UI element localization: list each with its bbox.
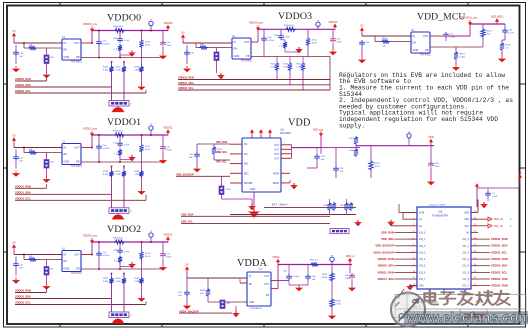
svg-text:VDDO1_pre: VDDO1_pre bbox=[83, 126, 98, 130]
svg-text:SCL_IN: SCL_IN bbox=[494, 225, 503, 228]
svg-text:OUT: OUT bbox=[74, 41, 80, 45]
svg-text:0.22uF: 0.22uF bbox=[103, 43, 110, 45]
svg-text:PCA9539CPW: PCA9539CPW bbox=[432, 215, 449, 218]
svg-text:23: 23 bbox=[474, 217, 476, 219]
wire bbox=[120, 159, 132, 161]
wire bbox=[207, 297, 209, 302]
wire VDDA rail bbox=[278, 264, 352, 266]
svg-text:SDA: SDA bbox=[464, 218, 469, 221]
svg-text:0.22uF: 0.22uF bbox=[268, 40, 275, 42]
ground VDDO3 input bbox=[183, 66, 191, 72]
wire OUT stub bbox=[81, 147, 92, 149]
svg-text:VDDO3_RUN: VDDO3_RUN bbox=[491, 257, 508, 261]
wire bbox=[355, 145, 357, 148]
svg-text:4.7uF: 4.7uF bbox=[124, 40, 130, 42]
svg-text:PB: PB bbox=[76, 160, 80, 164]
svg-text:19: 19 bbox=[474, 244, 476, 246]
wire out lower bbox=[278, 280, 289, 282]
svg-text:VDDO3_pre: VDDO3_pre bbox=[249, 21, 264, 25]
wire bus VDDO0_RUN bbox=[15, 80, 47, 82]
capacitor C3in 1uF bbox=[184, 50, 190, 56]
wire drop bbox=[335, 148, 337, 166]
svg-text:GND: GND bbox=[64, 267, 70, 271]
capacitor C30 1uF bbox=[314, 154, 320, 160]
ground jumper VDDO2 bbox=[42, 284, 50, 290]
wire bbox=[24, 47, 28, 49]
wire VDD right rail bbox=[356, 145, 434, 147]
wire bus VDDO3_SCL bbox=[178, 89, 330, 91]
resistor R152 6.04K bbox=[122, 277, 126, 285]
ground flag VDDA IC bbox=[232, 311, 240, 317]
wire bbox=[332, 29, 334, 36]
wire join bbox=[277, 265, 279, 289]
wire bbox=[263, 42, 265, 56]
resistor R131 6.04K bbox=[288, 62, 292, 72]
svg-text:1uF: 1uF bbox=[19, 56, 23, 58]
wire VDDO3_SCL right bbox=[478, 271, 490, 273]
svg-text:R115: R115 bbox=[218, 149, 224, 151]
wire bbox=[331, 282, 333, 298]
svg-text:5V: 5V bbox=[360, 23, 363, 27]
wire divider mid bbox=[141, 260, 143, 277]
svg-text:VDD_SDA: VDD_SDA bbox=[216, 151, 227, 154]
svg-text:13: 13 bbox=[474, 284, 476, 286]
svg-text:R150: R150 bbox=[116, 67, 122, 69]
wire bbox=[276, 72, 278, 80]
wire bbox=[186, 272, 188, 278]
test point TP2 bbox=[149, 231, 153, 240]
wire bbox=[98, 46, 100, 58]
svg-text:R122: R122 bbox=[340, 205, 346, 207]
resistor R121a bbox=[327, 202, 331, 211]
svg-text:VDDO2_SCL: VDDO2_SCL bbox=[491, 250, 507, 254]
ground VDD out cap bbox=[427, 179, 435, 185]
capacitor C3c 10uF bbox=[330, 37, 336, 44]
wire VSS bbox=[410, 284, 417, 286]
svg-text:GND: GND bbox=[64, 55, 70, 59]
svg-text:R162: R162 bbox=[135, 278, 141, 280]
ground VDDO1 input cap bbox=[12, 171, 20, 177]
wire VDDO3_RUN right bbox=[478, 285, 490, 287]
wire bbox=[120, 54, 132, 56]
wire PB/feedback net bbox=[81, 57, 164, 59]
wire bbox=[98, 242, 100, 251]
wire bbox=[307, 280, 309, 285]
svg-text:TPS78601: TPS78601 bbox=[71, 272, 83, 275]
ground flag C1 bbox=[480, 202, 488, 208]
wire bbox=[455, 47, 457, 51]
svg-text:5: 5 bbox=[413, 237, 414, 239]
wire bbox=[320, 148, 322, 154]
wire bbox=[162, 152, 164, 158]
svg-text:2.05k: 2.05k bbox=[460, 56, 466, 58]
power flag VDDO3_pre bbox=[249, 21, 264, 31]
jumper JP16 bbox=[219, 186, 224, 195]
wire bus SCL rise bbox=[145, 302, 147, 305]
svg-text:OUT: OUT bbox=[274, 158, 279, 160]
capacitor C8b 1uF bbox=[305, 274, 311, 280]
wire bbox=[111, 274, 113, 278]
resistor R132 2.05k bbox=[330, 298, 334, 308]
svg-text:EN: EN bbox=[234, 47, 238, 51]
wire bbox=[162, 135, 164, 145]
svg-text:4.42K: 4.42K bbox=[103, 281, 109, 283]
wire bbox=[15, 150, 17, 155]
svg-text:31.6k: 31.6k bbox=[312, 40, 318, 42]
svg-text:10uF: 10uF bbox=[167, 45, 173, 47]
svg-text:40.2k: 40.2k bbox=[375, 166, 381, 168]
svg-text:2: 2 bbox=[413, 217, 414, 219]
power flag VDDO2 output bbox=[164, 233, 173, 243]
wire bus SCL rise bbox=[145, 90, 147, 93]
svg-text:4.7uF: 4.7uF bbox=[124, 252, 130, 254]
svg-text:VDDO2_pre: VDDO2_pre bbox=[83, 233, 98, 237]
capacitor C2b 4.7uF bbox=[117, 248, 123, 254]
wire bbox=[332, 44, 334, 50]
wire bbox=[216, 48, 218, 53]
wire bbox=[150, 29, 152, 31]
wire bbox=[504, 24, 506, 28]
wire PB feedback bbox=[430, 46, 483, 48]
wire bbox=[316, 148, 318, 154]
wire bbox=[443, 35, 446, 37]
wire to jumper bbox=[46, 260, 48, 267]
resistor R131 49.9k bbox=[330, 272, 334, 282]
svg-text:EPAD: EPAD bbox=[273, 182, 279, 185]
test point TP9 bbox=[407, 132, 411, 141]
svg-text:VDDO3_SDA: VDDO3_SDA bbox=[491, 264, 507, 268]
svg-text:0.22uF: 0.22uF bbox=[103, 148, 110, 150]
wire VDD IC left pin bbox=[230, 153, 242, 155]
svg-text:supply.: supply. bbox=[339, 122, 365, 129]
svg-text:1uF: 1uF bbox=[19, 161, 23, 163]
svg-text:18: 18 bbox=[474, 251, 476, 253]
wire drop to header bbox=[123, 73, 125, 101]
wire bbox=[141, 285, 143, 296]
ground C8c bbox=[348, 285, 356, 291]
ground dome VDDO1 header bbox=[112, 214, 124, 219]
wire U15 left pin stub bbox=[410, 225, 417, 227]
wire VDDO1 output rail bbox=[92, 134, 168, 136]
wire bbox=[15, 45, 17, 50]
wire bbox=[285, 51, 299, 53]
svg-text:41.2k: 41.2k bbox=[145, 253, 151, 255]
power flag VDD_MCU output bbox=[491, 15, 504, 25]
svg-text:JP16: JP16 bbox=[226, 189, 232, 191]
wire VDDO2_RUN right bbox=[478, 278, 490, 280]
resistor R100b 1.0 bbox=[118, 44, 122, 52]
wire bbox=[208, 47, 232, 49]
wire bbox=[302, 72, 304, 91]
wire OUT rise bbox=[91, 242, 93, 255]
wire VDDO0_SDA to U15 bbox=[395, 265, 411, 267]
wire to VDD IC pin2 bbox=[214, 159, 230, 161]
svg-text:20: 20 bbox=[474, 237, 476, 239]
wire VDDO1 IN net bbox=[14, 147, 62, 149]
svg-text:R152: R152 bbox=[116, 278, 122, 280]
svg-text:FB1 1.0: FB1 1.0 bbox=[310, 260, 318, 262]
svg-text:IO1_3: IO1_3 bbox=[463, 259, 470, 261]
wire EN bbox=[208, 301, 247, 303]
wire VDDO2_RUN right bbox=[478, 238, 490, 240]
svg-text:0.1uF: 0.1uF bbox=[450, 36, 456, 38]
wire U15 right pin stub bbox=[471, 278, 478, 280]
ground jumper VDDO1 bbox=[42, 177, 50, 183]
wire bbox=[150, 240, 152, 242]
voltage regulator U11 TPS78601 bbox=[62, 140, 83, 168]
capacitor C7b 4.7uF bbox=[502, 28, 508, 34]
wire bbox=[119, 242, 121, 248]
svg-text:VDD_pre: VDD_pre bbox=[313, 128, 324, 132]
wire PB/feedback net bbox=[81, 268, 164, 270]
svg-text:OUT: OUT bbox=[264, 276, 269, 278]
svg-text:OUT: OUT bbox=[274, 145, 279, 147]
wire bbox=[15, 257, 17, 262]
wire bbox=[455, 60, 457, 65]
wire bbox=[98, 150, 100, 162]
wire U15 right pin stub bbox=[471, 251, 478, 253]
capacitor C1a 0.22uF bbox=[96, 144, 102, 150]
wire bbox=[281, 39, 285, 41]
wire bbox=[162, 47, 164, 53]
svg-text:IO1_6: IO1_6 bbox=[463, 279, 470, 281]
power flag VDDO3 output bbox=[329, 20, 338, 30]
svg-text:0.22uF: 0.22uF bbox=[103, 255, 110, 257]
wire EN to IC bbox=[37, 47, 62, 49]
svg-text:VDD_SCL: VDD_SCL bbox=[216, 162, 227, 164]
wire drop to header bbox=[123, 285, 125, 313]
wire EN to IC bbox=[37, 152, 62, 154]
svg-text:VDDO1: VDDO1 bbox=[107, 117, 141, 128]
resistor R100 0.1 shunt bbox=[114, 28, 125, 32]
svg-text:R120: R120 bbox=[375, 163, 381, 165]
svg-text:www.elecfans.com: www.elecfans.com bbox=[406, 310, 528, 325]
wire bbox=[186, 56, 188, 64]
wire drop to header bbox=[123, 178, 125, 208]
svg-text:U15: U15 bbox=[438, 211, 443, 214]
wire out join bbox=[291, 145, 293, 159]
resistor R12e 10k bbox=[28, 257, 37, 261]
wire bus VDD_SCL bbox=[181, 222, 330, 224]
wire VDDO2 IN net bbox=[14, 254, 62, 256]
wire U15 left pin stub bbox=[410, 278, 417, 280]
svg-text:14: 14 bbox=[474, 277, 476, 279]
wire hidden bbox=[355, 136, 357, 146]
ground VDDO0 input cap bbox=[12, 66, 20, 72]
svg-text:R151: R151 bbox=[116, 171, 122, 173]
wire bbox=[213, 144, 215, 146]
svg-text:4: 4 bbox=[413, 231, 414, 233]
resistor R141 4.42K bbox=[109, 170, 113, 178]
wire bbox=[375, 41, 381, 43]
wire bbox=[288, 280, 290, 285]
wire bbox=[15, 268, 17, 276]
ground VDDA divider bbox=[328, 313, 336, 319]
wire bbox=[374, 36, 376, 42]
resistor R122 5.86k bbox=[139, 277, 143, 285]
svg-text:VDDA: VDDA bbox=[237, 258, 268, 269]
svg-text:VDDO0: VDDO0 bbox=[107, 12, 141, 23]
wire U15 VDD to 5V net bbox=[477, 200, 478, 213]
svg-text:IN: IN bbox=[64, 41, 67, 45]
capacitor C8c 10uF bbox=[349, 273, 355, 280]
wire U15 left pin stub bbox=[410, 271, 417, 273]
resistor R103 50.1 shunt bbox=[285, 27, 296, 31]
svg-text:R119: R119 bbox=[460, 54, 466, 56]
wire OUT rise bbox=[91, 135, 93, 148]
svg-text:17: 17 bbox=[474, 257, 476, 259]
wire VDDO2_SDA right bbox=[478, 245, 490, 247]
resistor R122b bbox=[349, 202, 353, 211]
svg-text:IO1_4: IO1_4 bbox=[463, 266, 470, 268]
wire bus SCL rise bbox=[145, 195, 147, 201]
capacitor C0c 10uF bbox=[160, 40, 166, 47]
capacitor CAin 1uF bbox=[184, 290, 190, 296]
wire VDDO3 rail bbox=[258, 28, 335, 30]
svg-text:15: 15 bbox=[474, 271, 476, 273]
wire bbox=[501, 40, 503, 42]
capacitor C20 1uF bbox=[194, 152, 200, 158]
dc-dc converter U1 MIC23099 bbox=[242, 130, 291, 193]
ground VDDO2 input cap bbox=[12, 278, 20, 284]
ground output cap VDDO2 bbox=[159, 265, 167, 271]
wire bbox=[120, 266, 132, 268]
capacitor C1 0.1uF bbox=[485, 191, 491, 197]
resistor R130 10k bbox=[206, 288, 210, 297]
voltage regulator U17 TPS78601 bbox=[411, 29, 432, 57]
jumper JP2a bbox=[44, 267, 49, 276]
wire U15 left pin stub bbox=[410, 251, 417, 253]
wire bbox=[298, 47, 300, 52]
resistor R11e 10k bbox=[28, 150, 37, 154]
resistor R114 10k bbox=[381, 39, 390, 43]
wire rail ext bbox=[321, 147, 336, 149]
svg-text:VDD_RUN: VDD_RUN bbox=[216, 142, 227, 144]
wire bbox=[196, 144, 198, 152]
wire bbox=[316, 160, 318, 168]
wire bbox=[195, 43, 197, 48]
wire bbox=[167, 134, 169, 136]
wire bbox=[141, 178, 143, 189]
wire VDDO3 PB net bbox=[251, 56, 330, 58]
wire bbox=[207, 278, 209, 288]
wire bbox=[119, 157, 121, 163]
voltage regulator U13 TPS78601 bbox=[232, 35, 253, 63]
svg-text:VDDO3_RUN: VDDO3_RUN bbox=[491, 284, 508, 288]
svg-text:41.2k: 41.2k bbox=[145, 146, 151, 148]
ground flag VDDO0 mid bbox=[128, 51, 136, 57]
capacitor C33 10uF bbox=[428, 161, 434, 168]
wire bbox=[123, 62, 125, 66]
wire jumper to gnd bbox=[46, 64, 48, 73]
svg-text:5.86K: 5.86K bbox=[135, 174, 141, 176]
svg-text:VDD_MCU_pre: VDD_MCU_pre bbox=[459, 16, 478, 20]
header J2 4-pin bbox=[109, 312, 129, 318]
svg-text:1uF: 1uF bbox=[189, 157, 193, 159]
resistor R112 41.2k bbox=[139, 251, 143, 261]
resistor R122a bbox=[344, 202, 348, 211]
power flag 5V (VDDO3 input) bbox=[181, 30, 185, 40]
offpage connector SCL_IN bbox=[478, 224, 512, 228]
capacitor C0a 0.22uF bbox=[96, 40, 102, 46]
wire hidden bbox=[395, 260, 411, 262]
power flag 5V (VDDA input) bbox=[185, 262, 189, 272]
svg-text:R118: R118 bbox=[349, 150, 355, 152]
wire bbox=[408, 141, 410, 146]
wire EN stub bbox=[240, 282, 247, 284]
svg-text:R101 50.1: R101 50.1 bbox=[113, 131, 124, 133]
svg-text:R161: R161 bbox=[135, 171, 141, 173]
svg-text:1uF: 1uF bbox=[366, 42, 370, 44]
svg-text:VDD_SDA: VDD_SDA bbox=[381, 237, 394, 241]
svg-text:OUT: OUT bbox=[74, 146, 80, 150]
svg-text:R102 50.1: R102 50.1 bbox=[113, 238, 124, 240]
svg-text:IO1_7: IO1_7 bbox=[463, 286, 470, 288]
wire bbox=[119, 264, 121, 270]
wire bbox=[123, 274, 125, 278]
wire bbox=[221, 195, 223, 200]
svg-text:5V: 5V bbox=[185, 262, 188, 266]
svg-text:VDD_MCU: VDD_MCU bbox=[491, 15, 504, 19]
ground flag VDDO3 jumper bbox=[217, 73, 225, 79]
wire bbox=[501, 51, 503, 56]
svg-text:4.7uF: 4.7uF bbox=[124, 145, 130, 147]
wire bbox=[98, 135, 100, 144]
wire 5V feed VDDO2 bbox=[13, 250, 15, 255]
wire bus VDDO3_SDA bbox=[178, 84, 330, 86]
wire bbox=[111, 167, 113, 171]
svg-text:41.2k: 41.2k bbox=[145, 42, 151, 44]
svg-text:VDDA: VDDA bbox=[272, 255, 279, 259]
svg-text:IO1_2: IO1_2 bbox=[463, 252, 470, 254]
power flag 5V (VDDO0 input) bbox=[12, 29, 16, 39]
wire bottom bend bbox=[398, 289, 404, 299]
wire bbox=[445, 38, 447, 41]
wire bbox=[307, 29, 309, 37]
test point TP3 bbox=[316, 20, 320, 29]
wire U15 right pin stub bbox=[471, 285, 478, 287]
svg-text:R130: R130 bbox=[271, 64, 277, 66]
wire bbox=[119, 135, 121, 141]
resistor R3e 10k bbox=[199, 45, 208, 49]
resistor R120 40.2k bbox=[369, 160, 373, 171]
svg-text:5.86K: 5.86K bbox=[135, 69, 141, 71]
resistor R118b bbox=[354, 148, 358, 157]
ground output cap VDDO0 bbox=[159, 53, 167, 59]
wire bbox=[251, 135, 253, 138]
wire hidden bbox=[395, 253, 411, 255]
svg-text:IN: IN bbox=[64, 253, 67, 257]
wire jumper to gnd bbox=[46, 275, 48, 284]
svg-text:TPS78601: TPS78601 bbox=[71, 61, 83, 64]
svg-text:IO1_1: IO1_1 bbox=[463, 246, 470, 248]
wire U15 left pin stub bbox=[410, 285, 417, 287]
power flag 5V (VDDO2 input) bbox=[12, 240, 16, 250]
svg-text:SDA_IN: SDA_IN bbox=[494, 218, 503, 221]
svg-text:R117: R117 bbox=[349, 138, 355, 140]
svg-text:1. Measure the current to each: 1. Measure the current to each VDD pin o… bbox=[339, 85, 509, 92]
svg-text:EN2: EN2 bbox=[244, 173, 249, 175]
svg-text:SCL: SCL bbox=[464, 226, 469, 228]
capacitor C1b 4.7uF bbox=[117, 141, 123, 147]
wire divider mid bbox=[141, 49, 143, 66]
capacitor C3a 0.22uF bbox=[261, 36, 267, 42]
resistor R130 4.42K bbox=[275, 62, 279, 72]
wire bbox=[302, 57, 304, 63]
resistor R111 41.2k bbox=[139, 144, 143, 153]
svg-text:IN: IN bbox=[64, 146, 67, 150]
wire bbox=[196, 158, 198, 166]
